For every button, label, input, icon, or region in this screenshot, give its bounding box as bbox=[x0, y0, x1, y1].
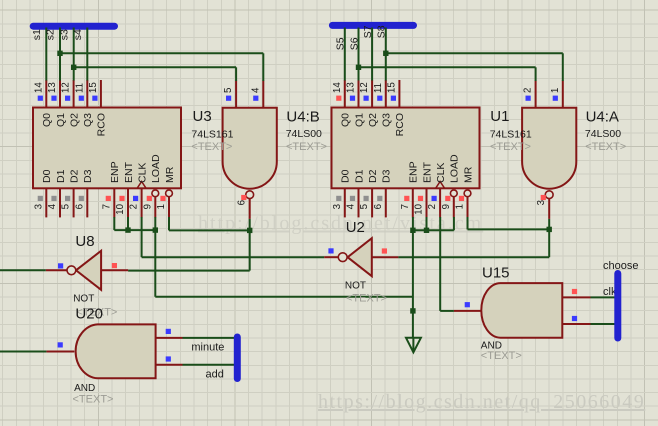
svg-text:s3: s3 bbox=[58, 29, 70, 40]
svg-text:D3: D3 bbox=[381, 169, 393, 183]
svg-text:CLK: CLK bbox=[435, 163, 447, 183]
svg-text:U4:A: U4:A bbox=[586, 109, 619, 126]
svg-text:D0: D0 bbox=[41, 169, 53, 183]
svg-text:3: 3 bbox=[332, 204, 343, 209]
svg-text:NOT: NOT bbox=[73, 294, 94, 305]
U2 output bubble bbox=[338, 253, 347, 262]
wire S7 from bus B2 to U1 Q2 bbox=[371, 28, 373, 81]
bus B3 (choose/clk) bbox=[614, 274, 621, 339]
wire U1 LOAD drop bbox=[453, 217, 455, 230]
wire U8 output to left edge bbox=[0, 269, 46, 271]
U1 pin 6 (D3) bbox=[373, 169, 393, 217]
svg-text:10: 10 bbox=[414, 203, 425, 214]
NAND gate U4:A body (74LS00) bbox=[522, 108, 576, 189]
U1 pin 15 (RCO) bbox=[386, 80, 406, 136]
U1 pin 12 (Q2) bbox=[359, 80, 379, 127]
svg-text:S8: S8 bbox=[376, 25, 388, 38]
svg-text:ENT: ENT bbox=[421, 161, 433, 183]
svg-text:choose: choose bbox=[603, 260, 638, 272]
svg-text:2: 2 bbox=[427, 204, 438, 209]
bus B4 (minute/add) bbox=[234, 337, 241, 379]
svg-text:MR: MR bbox=[462, 166, 474, 183]
svg-text:S5: S5 bbox=[335, 37, 347, 50]
svg-text:RCO: RCO bbox=[394, 113, 406, 136]
74LS161 counter U3 body bbox=[33, 108, 181, 189]
junction ENT rail bbox=[125, 227, 130, 232]
svg-text:MR: MR bbox=[164, 166, 176, 183]
svg-text:10: 10 bbox=[115, 203, 126, 214]
wire U3 ENP to ENT/LOAD rail bbox=[114, 217, 155, 230]
U4:B output pin 6 bbox=[237, 195, 250, 219]
U1 pin 2 (CLK) bbox=[427, 163, 447, 218]
svg-text:6: 6 bbox=[74, 204, 85, 209]
wire S6 from bus B2 to U1 Q1 bbox=[358, 28, 360, 81]
svg-text:1: 1 bbox=[156, 204, 167, 209]
svg-text:RCO: RCO bbox=[96, 113, 108, 136]
svg-text:5: 5 bbox=[359, 204, 370, 209]
U1 pin 3 (D0) bbox=[332, 169, 352, 217]
wire s1 from bus B1 to U3 Q0 bbox=[45, 28, 47, 81]
svg-text:U8: U8 bbox=[75, 233, 94, 250]
svg-text:U2: U2 bbox=[346, 219, 365, 236]
svg-text:15: 15 bbox=[386, 82, 397, 93]
svg-text:13: 13 bbox=[346, 82, 357, 93]
junction U4:A output / U1 MR bbox=[547, 227, 552, 232]
svg-text:D2: D2 bbox=[367, 169, 379, 183]
U3 pin 9 (LOAD) bbox=[142, 154, 162, 217]
U1 pin 7 (ENP) bbox=[400, 161, 420, 217]
svg-text:3: 3 bbox=[33, 204, 44, 209]
svg-text:S7: S7 bbox=[362, 25, 374, 38]
wire S8 from bus B2 to U1 Q3 bbox=[385, 28, 387, 81]
ground symbol bbox=[406, 337, 421, 352]
U3 pin 1 (MR) bbox=[156, 166, 176, 217]
svg-text:6: 6 bbox=[373, 204, 384, 209]
wire U4:A pin 3 down to U2 input net bbox=[548, 219, 550, 257]
U1 pin 14 (Q0) bbox=[332, 80, 352, 127]
svg-text:13: 13 bbox=[47, 82, 58, 93]
svg-text:Q0: Q0 bbox=[340, 113, 352, 127]
U3 pin 5 (D2) bbox=[61, 169, 81, 217]
U1 pin 4 (D1) bbox=[346, 169, 366, 217]
svg-text:4: 4 bbox=[250, 87, 261, 93]
wire U4:B pin 6 down to U8 input bbox=[128, 219, 250, 271]
AND gate U15 body bbox=[481, 283, 562, 338]
svg-text:s2: s2 bbox=[45, 29, 57, 40]
svg-text:D0: D0 bbox=[340, 169, 352, 183]
U3 pin 3 (D0) bbox=[33, 169, 53, 217]
U4:A input pin 1 bbox=[550, 81, 563, 108]
wire U3 ENT drop bbox=[127, 217, 129, 230]
junction U1 ENT rail bbox=[424, 228, 429, 233]
svg-text:<TEXT>: <TEXT> bbox=[481, 350, 522, 362]
junction U1 ENP rail bbox=[410, 228, 415, 233]
U2 output stub bbox=[324, 248, 338, 257]
svg-text:<TEXT>: <TEXT> bbox=[490, 141, 531, 153]
wire U3 LOAD down and right to U1 ENP net bbox=[155, 217, 413, 297]
U8 output bubble bbox=[67, 266, 76, 275]
svg-text:Q3: Q3 bbox=[381, 113, 393, 127]
svg-text:ENP: ENP bbox=[408, 161, 420, 183]
wire S5 from bus B2 to U1 Q0 bbox=[344, 28, 346, 81]
svg-text:U15: U15 bbox=[482, 265, 510, 282]
junction on S8 bbox=[383, 51, 388, 56]
wire U20 input B to bus bbox=[183, 364, 235, 366]
U3 pin 12 (Q2) bbox=[61, 80, 81, 127]
svg-text:5: 5 bbox=[223, 88, 234, 93]
U8 input stub bbox=[101, 263, 128, 270]
svg-text:U20: U20 bbox=[75, 306, 103, 323]
svg-text:ENP: ENP bbox=[109, 161, 121, 183]
svg-text:s4: s4 bbox=[72, 29, 84, 40]
svg-text:Q0: Q0 bbox=[41, 113, 53, 127]
svg-text:CLK: CLK bbox=[136, 163, 148, 183]
wire U3 MR to U4:B output bbox=[169, 217, 250, 230]
U3 pin 14 (Q0) bbox=[33, 80, 53, 127]
svg-text:S6: S6 bbox=[348, 37, 360, 50]
svg-text:14: 14 bbox=[332, 82, 343, 93]
svg-text:D3: D3 bbox=[82, 169, 94, 183]
U3 pin 7 (ENP) bbox=[101, 161, 121, 217]
wire U1 MR to U4:A output bbox=[468, 217, 550, 229]
wire s4 from bus B1 to U3 Q3 bbox=[86, 28, 88, 81]
wire U20 input A to bus bbox=[183, 337, 235, 339]
svg-text:D2: D2 bbox=[68, 169, 80, 183]
U3 pin 11 (Q3) bbox=[74, 80, 94, 127]
svg-text:<TEXT>: <TEXT> bbox=[585, 141, 626, 153]
svg-text:D1: D1 bbox=[353, 169, 365, 183]
svg-text:minute: minute bbox=[191, 342, 224, 354]
svg-text:s1: s1 bbox=[31, 29, 43, 40]
AND gate U20 body bbox=[76, 324, 156, 378]
U3 pin 13 (Q1) bbox=[47, 80, 67, 127]
U4:A output pin 3 bbox=[536, 195, 549, 219]
svg-text:11: 11 bbox=[373, 83, 384, 93]
svg-text:Q2: Q2 bbox=[367, 113, 379, 127]
U4:B input pin 5 bbox=[223, 81, 236, 108]
svg-text:15: 15 bbox=[88, 82, 99, 93]
svg-text:<TEXT>: <TEXT> bbox=[346, 293, 387, 305]
svg-text:Q1: Q1 bbox=[353, 113, 365, 127]
wire U1 Q1 to U4:A pin 2 bbox=[359, 67, 536, 81]
svg-text:Q3: Q3 bbox=[82, 113, 94, 127]
svg-text:12: 12 bbox=[359, 82, 370, 93]
svg-text:D1: D1 bbox=[55, 169, 67, 183]
NOT gate U8 body bbox=[76, 251, 101, 290]
svg-text:74LS00: 74LS00 bbox=[286, 128, 322, 140]
wire U3 CLK to U2 output bbox=[142, 217, 325, 257]
U15 input B stub bbox=[562, 316, 590, 324]
svg-text:7: 7 bbox=[400, 204, 411, 209]
svg-text:<TEXT>: <TEXT> bbox=[73, 394, 114, 406]
svg-text:<TEXT>: <TEXT> bbox=[286, 141, 327, 153]
junction LOAD rail bbox=[153, 227, 158, 232]
svg-text:9: 9 bbox=[441, 204, 452, 209]
svg-text:NOT: NOT bbox=[345, 281, 366, 292]
svg-text:ENT: ENT bbox=[123, 161, 135, 183]
svg-text:Q2: Q2 bbox=[68, 113, 80, 127]
wire U15 input A to bus bbox=[591, 296, 615, 298]
svg-text:Q1: Q1 bbox=[55, 113, 67, 127]
U4:A output bubble bbox=[545, 191, 553, 199]
svg-text:1: 1 bbox=[550, 88, 561, 93]
wire U1 ENP down to ground bbox=[412, 217, 414, 337]
wire U1 ENT drop bbox=[426, 217, 428, 230]
NAND gate U4:B body (74LS00) bbox=[223, 108, 277, 189]
svg-text:9: 9 bbox=[142, 204, 153, 209]
U4:B output bubble bbox=[246, 191, 254, 199]
wire U1 Q3 to U4:A pin 1 bbox=[386, 53, 563, 81]
svg-text:5: 5 bbox=[61, 204, 72, 209]
svg-text:U4:B: U4:B bbox=[286, 109, 319, 126]
svg-text:11: 11 bbox=[74, 83, 85, 93]
U20 input A stub (minute) bbox=[156, 329, 183, 338]
U1 pin 10 (ENT) bbox=[414, 161, 434, 217]
svg-text:4: 4 bbox=[346, 203, 357, 209]
wire U20 output to left edge bbox=[0, 351, 46, 353]
junction U4:B output / U3 MR bbox=[247, 228, 252, 233]
U3 pin 10 (ENT) bbox=[115, 161, 135, 217]
svg-text:74LS161: 74LS161 bbox=[490, 128, 532, 140]
svg-text:<TEXT>: <TEXT> bbox=[191, 141, 232, 153]
U1 pin 9 (LOAD) bbox=[441, 154, 461, 217]
wire s3 from bus B1 to U3 Q2 bbox=[73, 28, 75, 81]
svg-text:1: 1 bbox=[455, 204, 466, 209]
U3 pin 6 (D3) bbox=[74, 169, 94, 217]
U20 input B stub (add) bbox=[156, 356, 183, 364]
wire U1 CLK to U15 output bbox=[440, 217, 454, 311]
wire U1 ENP rail to LOAD bbox=[413, 229, 454, 231]
bus B2 (S5-S8) bbox=[332, 22, 413, 29]
U15 output stub bbox=[454, 302, 481, 311]
U15 input A stub (clk) bbox=[562, 289, 590, 298]
U1 pin 5 (D2) bbox=[359, 169, 379, 217]
U20 output stub bbox=[46, 342, 74, 351]
74LS161 counter U1 body bbox=[332, 108, 480, 189]
U1 pin 13 (Q1) bbox=[346, 80, 366, 127]
svg-text:74LS161: 74LS161 bbox=[191, 128, 233, 140]
U3 pin 4 (D1) bbox=[47, 169, 67, 217]
svg-text:https://blog.csdn.net/qq_25066: https://blog.csdn.net/qq_25066049 bbox=[318, 391, 645, 413]
svg-text:LOAD: LOAD bbox=[150, 154, 162, 183]
svg-text:U1: U1 bbox=[490, 108, 509, 125]
wire U3 Q1 to U4:B pin 4 bbox=[60, 53, 263, 81]
svg-text:2: 2 bbox=[523, 88, 534, 93]
svg-text:2: 2 bbox=[129, 204, 140, 209]
junction on s3 bbox=[71, 65, 76, 70]
junction on ground rail at U15 level bbox=[410, 308, 415, 313]
U1 pin 11 (Q3) bbox=[373, 80, 393, 127]
wire U3 Q2 to U4:B pin 5 bbox=[74, 67, 236, 81]
svg-text:14: 14 bbox=[33, 82, 44, 93]
U4:B input pin 4 bbox=[250, 81, 263, 108]
wire U2 input from U4:A output bbox=[398, 256, 549, 258]
wire U15 input B to bus bbox=[591, 323, 615, 325]
junction on s2 bbox=[57, 51, 62, 56]
svg-text:6: 6 bbox=[237, 200, 248, 205]
svg-text:add: add bbox=[206, 368, 224, 380]
U2 input stub bbox=[372, 248, 399, 257]
svg-text:3: 3 bbox=[536, 200, 547, 205]
junction on S6 bbox=[356, 65, 361, 70]
svg-text:U3: U3 bbox=[193, 108, 212, 125]
U4:A input pin 2 bbox=[523, 81, 536, 108]
svg-text:4: 4 bbox=[47, 203, 58, 209]
svg-text:7: 7 bbox=[101, 204, 112, 209]
wire s2 from bus B1 to U3 Q1 bbox=[59, 28, 61, 81]
svg-text:12: 12 bbox=[61, 82, 72, 93]
svg-text:74LS00: 74LS00 bbox=[585, 128, 621, 140]
svg-text:AND: AND bbox=[74, 383, 95, 394]
U3 pin 2 (CLK) bbox=[129, 163, 149, 218]
svg-text:LOAD: LOAD bbox=[449, 154, 461, 183]
U3 pin 15 (RCO) bbox=[88, 80, 108, 136]
U8 output stub bbox=[46, 263, 67, 270]
NOT gate U2 body bbox=[348, 238, 372, 276]
U1 pin 1 (MR) bbox=[455, 166, 475, 217]
bus B1 (s1-s4) bbox=[33, 23, 114, 30]
